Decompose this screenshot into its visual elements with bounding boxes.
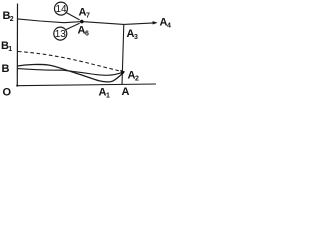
arrowhead A4 <box>153 21 158 24</box>
wire top budget line B2 to A4 <box>18 19 154 25</box>
node origin dot <box>16 85 18 87</box>
node junction dot (A6/A7 point) <box>80 20 84 24</box>
wire arrow from 13 to junction <box>66 23 80 29</box>
vertical line A3 to A <box>122 24 124 85</box>
circle 14 callout <box>55 2 68 15</box>
y-axis <box>16 4 18 86</box>
svg-text:7: 7 <box>86 13 90 20</box>
wire arrow from 14 to junction <box>66 13 79 20</box>
svg-text:1: 1 <box>106 93 110 100</box>
svg-text:O: O <box>3 87 12 99</box>
svg-text:2: 2 <box>10 16 14 23</box>
x-axis <box>17 84 156 86</box>
svg-text:1: 1 <box>8 46 12 53</box>
svg-text:13: 13 <box>55 29 67 40</box>
circle 13 callout <box>54 27 67 40</box>
solid lower curve from B <box>18 69 125 76</box>
svg-text:6: 6 <box>85 31 89 38</box>
solid upper curve from B (humped) <box>18 64 125 81</box>
svg-text:B: B <box>2 63 10 75</box>
svg-text:3: 3 <box>134 34 138 41</box>
svg-text:2: 2 <box>135 76 139 83</box>
svg-text:A: A <box>122 86 130 98</box>
dashed curve from B1 to A2 <box>18 52 121 72</box>
arrowhead at A2 (curves converge) <box>120 70 125 75</box>
svg-text:4: 4 <box>167 23 171 30</box>
svg-text:14: 14 <box>55 4 67 15</box>
